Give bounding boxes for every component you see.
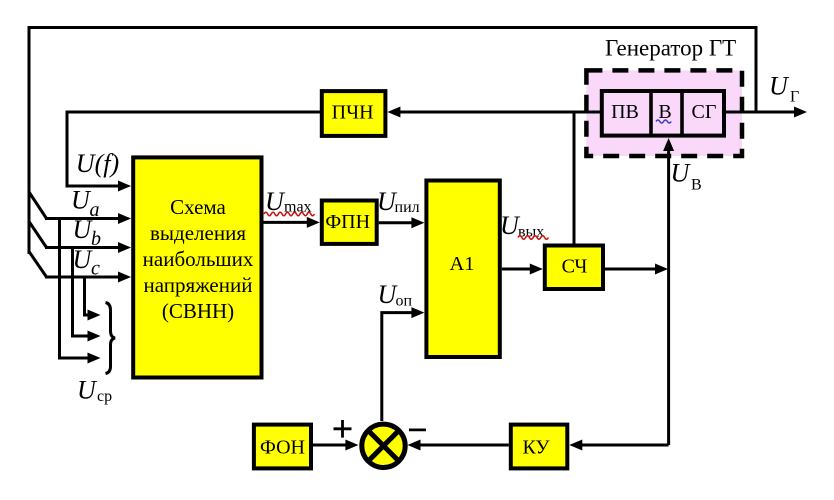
svg-text:А1: А1 [449, 253, 474, 275]
svg-text:(СВНН): (СВНН) [162, 299, 234, 323]
wire: Ub drop to Ucp [73, 248, 90, 337]
svg-text:В: В [691, 177, 702, 194]
divider V|SG [680, 91, 684, 136]
svg-text:U: U [769, 72, 790, 101]
wire: Ua drop to Ucp [60, 219, 90, 359]
wire: vertical bus from KU line up into V block [667, 150, 670, 445]
wire: Ub input line [45, 246, 119, 249]
svg-text:ср: ср [97, 388, 112, 405]
block SCH [545, 246, 603, 290]
wire: bus down-left into KU [581, 444, 669, 447]
svg-text:ПВ: ПВ [611, 101, 639, 123]
wire: Uvyh from A1 to SCH [502, 268, 531, 271]
svg-text:Схема: Схема [170, 195, 226, 219]
wire: generator output UG [726, 111, 795, 114]
svg-text:пил: пил [395, 199, 420, 216]
svg-text:Генератор ГТ: Генератор ГТ [605, 36, 736, 61]
svg-text:КУ: КУ [522, 437, 550, 459]
svg-text:оп: оп [396, 293, 413, 310]
wire: Upil from FPN to A1 [379, 221, 412, 224]
generator inner group rectangle [602, 91, 724, 136]
svg-text:напряжений: напряжений [144, 273, 253, 297]
svg-text:выделения: выделения [150, 221, 246, 245]
wire: Ua input line [45, 217, 119, 220]
wire: switch diagonal for phase b [29, 222, 47, 248]
wire: Umax from SVNN to FPN [264, 221, 309, 224]
wire: Uc input line [45, 276, 119, 279]
wire: Uop from summing circle up into A1 [382, 313, 412, 421]
blue squiggle under V [656, 120, 671, 123]
wire: Uc drop to Ucp [85, 277, 90, 315]
svg-text:наибольших: наибольших [143, 247, 254, 271]
minus sign [409, 428, 426, 431]
svg-text:ПЧН: ПЧН [332, 102, 374, 124]
wire: FON output to summing circle [313, 444, 347, 447]
block FON [254, 425, 311, 469]
block KU [511, 425, 568, 469]
brace for Ucp [106, 303, 116, 374]
block A1 [426, 181, 499, 358]
wire: feedback loop from generator output over top to left bus [29, 28, 756, 255]
wire: KU output to summing circle [419, 444, 509, 447]
svg-text:Г: Г [790, 89, 799, 106]
wire: line from PV left to PCHN input [400, 111, 600, 114]
summing circle with X [362, 424, 405, 467]
block SVNN [133, 157, 261, 377]
plus sign [334, 420, 352, 438]
wire: riser from SCH top to PV input line [573, 112, 576, 244]
svg-text:ФПН: ФПН [325, 211, 370, 233]
svg-text:U: U [265, 187, 286, 216]
divider PV|V [649, 91, 653, 136]
wire: switch diagonal for phase a [29, 192, 47, 219]
svg-text:U(f): U(f) [76, 149, 119, 178]
wire: PCHN output to U(f) input of SVNN [67, 112, 320, 186]
dashed generator box [586, 70, 742, 156]
svg-text:b: b [91, 228, 101, 250]
block PCHN [322, 91, 386, 136]
wire: switch diagonal for phase c [29, 252, 47, 278]
svg-text:СГ: СГ [692, 101, 717, 123]
svg-text:c: c [91, 258, 100, 280]
block FPN [322, 201, 377, 244]
svg-text:U: U [671, 159, 692, 188]
wire: segment of PV input inside dashed box [585, 111, 603, 114]
wire: SCH output to vertical bus [605, 268, 656, 271]
svg-text:U: U [77, 376, 98, 405]
red squiggle under vyh [518, 236, 548, 239]
svg-text:ФОН: ФОН [260, 437, 305, 459]
red squiggle under max [264, 212, 314, 215]
svg-text:СЧ: СЧ [562, 256, 588, 278]
